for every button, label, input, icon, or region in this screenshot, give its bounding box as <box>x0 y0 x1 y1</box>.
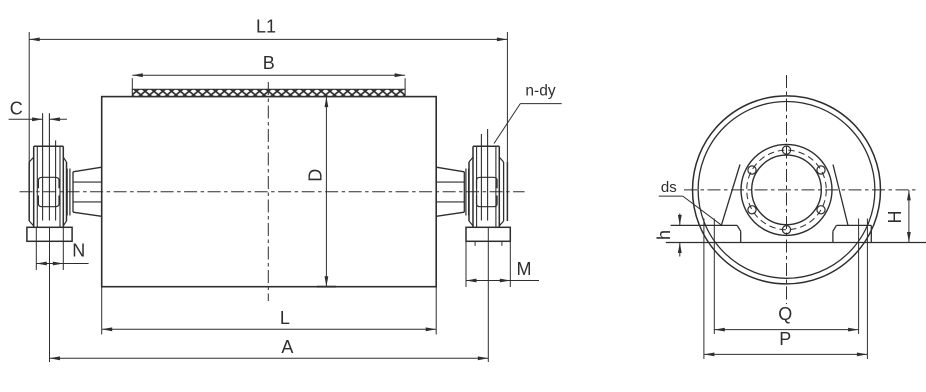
svg-text:H: H <box>885 211 905 224</box>
dimension D: vertical dimension line with arrows inside drum <box>325 97 327 287</box>
right bearing: base plate <box>466 227 510 241</box>
left bearing housing: body vertical walls <box>33 146 35 227</box>
drum body (pulley shell) <box>102 97 437 287</box>
svg-text:N: N <box>72 241 85 261</box>
dimension M: dimension line with arrows and tail <box>466 280 539 282</box>
right locking cone hub (tapered) <box>436 167 464 172</box>
dimension M: extension lines below right bearing base <box>465 241 467 287</box>
dimension D: bottom terminator tick <box>317 286 336 288</box>
dimension A: dimension line with arrows <box>50 357 489 359</box>
svg-text:h: h <box>654 230 674 240</box>
left bearing: bolt lines (C measured lines) <box>42 113 44 220</box>
right bearing housing: top plate <box>473 145 499 147</box>
dimension L: extension lines from drum bottom <box>101 287 103 335</box>
dimension B: dimension line with arrows <box>132 74 405 76</box>
dimension L1: extension lines <box>28 32 30 162</box>
end view: bore circle <box>752 155 822 225</box>
dimension L: dimension line with arrows <box>102 328 437 330</box>
svg-text:B: B <box>263 53 275 73</box>
left bearing housing: top plate <box>34 145 64 147</box>
svg-text:n-dy: n-dy <box>525 82 555 99</box>
svg-text:C: C <box>10 99 23 119</box>
left shaft flange rings <box>66 169 68 216</box>
left bearing: bore seat upper bracket <box>38 177 59 188</box>
right bearing housing: outer side edges <box>468 162 470 221</box>
pedestal left slant side <box>721 165 740 226</box>
pedestal right foot outer edge <box>870 225 872 242</box>
left bearing: second bolt tick <box>55 140 57 220</box>
dimension P: dimension line with arrows <box>704 353 868 355</box>
svg-text:P: P <box>779 329 791 349</box>
left locking cone hub (tapered) <box>73 167 102 172</box>
left shaft lines inside cone <box>73 181 102 183</box>
dimension h: outside arrows for foot height <box>679 214 681 226</box>
left bearing housing: corner chamfers <box>29 157 34 162</box>
pedestal right foot inner step <box>833 225 837 231</box>
right bearing: bore seat lower bracket <box>477 196 498 207</box>
dimension L1: dimension line with arrows <box>29 38 507 40</box>
dimension A: extension lines from bearing centers <box>49 228 51 362</box>
svg-text:Q: Q <box>778 304 792 324</box>
end view: 6 flange bolts <box>782 146 790 154</box>
right bearing: bolt lines <box>480 134 482 221</box>
end view: horizontal axis centerline <box>684 189 917 191</box>
right bearing housing: corner chamfers <box>469 157 473 162</box>
left bearing housing: outer side edges <box>28 162 30 221</box>
dimension C: dimension line with outside arrows <box>9 118 43 120</box>
end view: bearing flange circle <box>741 144 832 235</box>
dimension H: dimension line with arrows axis-to-base <box>908 190 910 243</box>
svg-text:L1: L1 <box>256 17 276 37</box>
end view: drum outer circle <box>693 96 881 284</box>
pedestal left foot top edge (with h extension) <box>671 224 738 226</box>
pedestal right foot top edge <box>836 224 871 226</box>
right bearing housing: body vertical walls <box>472 146 474 227</box>
dimension Q: extension lines through feet <box>713 219 715 335</box>
dimension B: extension lines <box>131 78 133 89</box>
left bearing: bore seat lower bracket <box>38 196 59 207</box>
right bearing: bolt hole stubs below base <box>474 241 476 246</box>
right bearing: bore seat upper bracket <box>477 177 498 188</box>
left view: drum vertical centerline <box>267 82 269 301</box>
dimension P: extension lines <box>703 219 705 360</box>
svg-text:D: D <box>306 169 326 182</box>
dimension N: dimension line with arrows and tail <box>36 263 88 265</box>
left bearing: base plate <box>27 227 72 241</box>
pedestal right slant side <box>833 165 848 226</box>
end view: vertical centerline <box>786 75 788 304</box>
pedestal left foot inner step <box>737 225 741 231</box>
dimension Q: dimension line with arrows <box>714 329 858 331</box>
left view: horizontal shaft axis centerline <box>20 191 525 193</box>
svg-text:L: L <box>280 308 290 328</box>
pedestal base line <box>666 242 926 244</box>
right shaft flange rings <box>465 169 467 216</box>
rubber lagging strip with crosshatch on drum top <box>132 89 405 96</box>
end view: drum rim inner circle <box>698 101 875 278</box>
end view: bolt circle (dashed) <box>747 150 827 230</box>
dimension N: extension lines below left bearing base <box>35 228 37 270</box>
svg-text:ds: ds <box>661 179 677 196</box>
svg-text:M: M <box>517 259 532 279</box>
svg-text:A: A <box>281 337 293 357</box>
right shaft lines inside cone <box>436 181 464 183</box>
